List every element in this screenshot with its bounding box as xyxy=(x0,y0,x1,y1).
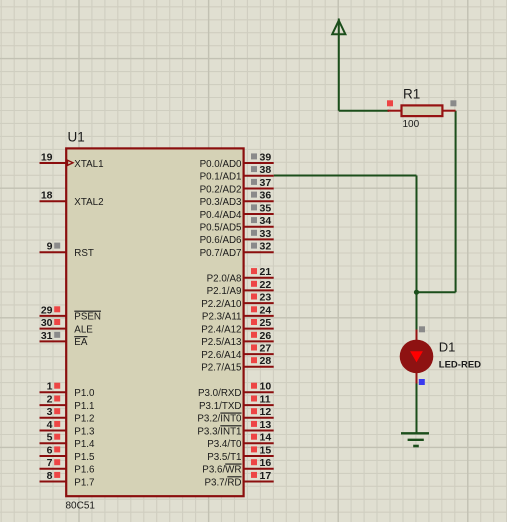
svg-text:P1.2: P1.2 xyxy=(74,414,94,425)
svg-text:12: 12 xyxy=(260,406,272,418)
svg-text:P0.5/AD5: P0.5/AD5 xyxy=(200,223,242,234)
svg-text:1: 1 xyxy=(47,381,53,393)
svg-text:P3.5/T1: P3.5/T1 xyxy=(207,452,241,463)
svg-text:P2.3/A11: P2.3/A11 xyxy=(202,312,242,323)
svg-text:18: 18 xyxy=(41,190,53,202)
svg-text:P1.5: P1.5 xyxy=(74,452,95,463)
svg-text:9: 9 xyxy=(47,241,53,253)
svg-text:RST: RST xyxy=(74,248,94,259)
svg-text:P0.1/AD1: P0.1/AD1 xyxy=(200,172,242,183)
svg-text:P2.5/A13: P2.5/A13 xyxy=(201,337,242,348)
svg-text:27: 27 xyxy=(260,343,272,355)
svg-text:100: 100 xyxy=(403,119,420,130)
svg-text:29: 29 xyxy=(41,304,53,316)
svg-text:P0.6/AD6: P0.6/AD6 xyxy=(200,235,242,246)
svg-text:R1: R1 xyxy=(403,87,420,102)
svg-text:4: 4 xyxy=(47,419,53,431)
svg-text:15: 15 xyxy=(260,444,272,456)
svg-text:P3.2/INT0: P3.2/INT0 xyxy=(197,414,242,425)
svg-text:D1: D1 xyxy=(439,340,456,355)
svg-text:P3.0/RXD: P3.0/RXD xyxy=(198,388,242,399)
svg-text:P0.0/AD0: P0.0/AD0 xyxy=(200,159,242,170)
svg-text:XTAL1: XTAL1 xyxy=(74,159,103,170)
svg-text:22: 22 xyxy=(260,279,272,291)
svg-text:P0.7/AD7: P0.7/AD7 xyxy=(200,248,242,259)
svg-text:P3.3/INT1: P3.3/INT1 xyxy=(197,426,241,437)
svg-text:30: 30 xyxy=(41,317,53,329)
svg-text:35: 35 xyxy=(260,202,272,214)
svg-text:19: 19 xyxy=(41,151,53,163)
svg-text:P1.4: P1.4 xyxy=(74,439,95,450)
svg-text:P0.4/AD4: P0.4/AD4 xyxy=(200,210,242,221)
svg-text:ALE: ALE xyxy=(74,324,93,335)
svg-text:LED-RED: LED-RED xyxy=(439,360,481,371)
svg-text:34: 34 xyxy=(260,215,272,227)
svg-text:P1.7: P1.7 xyxy=(74,477,94,488)
svg-text:37: 37 xyxy=(260,177,272,189)
svg-text:EA: EA xyxy=(74,337,88,348)
svg-text:11: 11 xyxy=(260,394,271,406)
svg-text:P3.6/WR: P3.6/WR xyxy=(202,465,241,476)
svg-text:P2.4/A12: P2.4/A12 xyxy=(201,324,241,335)
svg-text:P3.4/T0: P3.4/T0 xyxy=(207,439,242,450)
svg-text:23: 23 xyxy=(260,292,272,304)
svg-text:P2.0/A8: P2.0/A8 xyxy=(207,274,242,285)
svg-text:25: 25 xyxy=(260,317,272,329)
svg-text:P1.3: P1.3 xyxy=(74,426,95,437)
svg-text:7: 7 xyxy=(47,457,53,469)
svg-text:P2.1/A9: P2.1/A9 xyxy=(207,286,242,297)
svg-text:5: 5 xyxy=(47,432,53,444)
svg-text:16: 16 xyxy=(260,457,272,469)
svg-text:P2.7/A15: P2.7/A15 xyxy=(201,363,242,374)
svg-text:80C51: 80C51 xyxy=(66,501,96,512)
svg-text:10: 10 xyxy=(260,381,272,393)
svg-text:8: 8 xyxy=(47,470,53,482)
svg-text:14: 14 xyxy=(260,432,272,444)
svg-text:39: 39 xyxy=(260,151,272,163)
svg-text:32: 32 xyxy=(260,241,272,253)
svg-text:31: 31 xyxy=(41,330,53,342)
svg-text:P0.3/AD3: P0.3/AD3 xyxy=(200,197,242,208)
svg-text:P2.2/A10: P2.2/A10 xyxy=(201,299,242,310)
svg-text:21: 21 xyxy=(260,266,272,278)
svg-text:28: 28 xyxy=(260,355,272,367)
svg-text:3: 3 xyxy=(47,406,53,418)
svg-text:24: 24 xyxy=(260,304,272,316)
svg-text:P0.2/AD2: P0.2/AD2 xyxy=(200,184,242,195)
svg-text:6: 6 xyxy=(47,444,53,456)
svg-text:33: 33 xyxy=(260,228,272,240)
svg-text:U1: U1 xyxy=(68,130,85,145)
svg-text:17: 17 xyxy=(260,470,272,482)
svg-text:P3.1/TXD: P3.1/TXD xyxy=(199,401,241,412)
svg-text:P2.6/A14: P2.6/A14 xyxy=(201,350,242,361)
svg-text:26: 26 xyxy=(260,330,272,342)
svg-text:P1.0: P1.0 xyxy=(74,388,95,399)
svg-text:13: 13 xyxy=(260,419,272,431)
svg-text:XTAL2: XTAL2 xyxy=(74,197,103,208)
svg-text:38: 38 xyxy=(260,164,272,176)
svg-text:2: 2 xyxy=(47,394,53,406)
svg-text:36: 36 xyxy=(260,190,272,202)
svg-text:PSEN: PSEN xyxy=(74,312,101,323)
svg-text:P1.1: P1.1 xyxy=(74,401,94,412)
svg-text:P3.7/RD: P3.7/RD xyxy=(204,477,241,488)
svg-text:P1.6: P1.6 xyxy=(74,465,95,476)
